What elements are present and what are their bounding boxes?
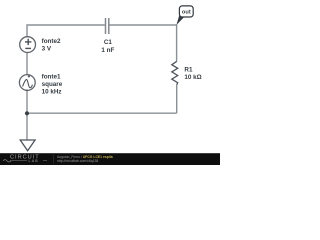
svg-text:3 V: 3 V	[42, 45, 52, 52]
svg-text:10 kΩ: 10 kΩ	[184, 74, 201, 81]
svg-text:square: square	[42, 81, 63, 88]
svg-text:fonte2: fonte2	[42, 38, 61, 45]
svg-text:10 kHz: 10 kHz	[42, 89, 62, 96]
svg-text:C1: C1	[104, 39, 113, 46]
svg-text:fonte1: fonte1	[42, 74, 61, 81]
svg-text:nttp://circuitlab.com/c8q138: nttp://circuitlab.com/c8q138	[57, 159, 98, 163]
svg-text:1 nF: 1 nF	[101, 47, 114, 54]
svg-text:R1: R1	[184, 67, 193, 74]
svg-text:LAB: LAB	[29, 159, 39, 163]
svg-text:Augusto_Firmo / UFCG LCE1 espi: Augusto_Firmo / UFCG LCE1 espila	[57, 155, 113, 159]
svg-text:out: out	[182, 10, 191, 16]
